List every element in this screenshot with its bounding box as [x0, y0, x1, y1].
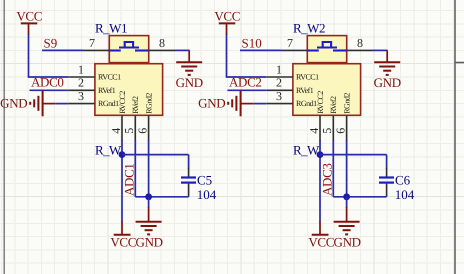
- svg-text:R_W2: R_W2: [293, 21, 325, 36]
- svg-text:VCC: VCC: [308, 235, 334, 250]
- wire pin 5 down: [332, 140, 334, 196]
- svg-text:GND: GND: [136, 235, 163, 250]
- wire junction to C6: [320, 155, 387, 169]
- wire pin 6 down: [148, 140, 150, 196]
- svg-text:2: 2: [276, 76, 282, 90]
- svg-text:RGnd1: RGnd1: [98, 99, 119, 108]
- capacitor C5: [181, 168, 196, 197]
- svg-text:VCC: VCC: [16, 9, 42, 24]
- svg-text:ADC3: ADC3: [320, 163, 335, 196]
- sheet border left edge: [3, 0, 5, 274]
- svg-text:3: 3: [78, 89, 84, 103]
- svg-text:104: 104: [395, 187, 415, 202]
- svg-text:VCC: VCC: [214, 9, 240, 24]
- pushbutton symbol: [110, 42, 149, 51]
- pin 3: [266, 89, 293, 104]
- pin 6: [136, 115, 150, 141]
- pin 1: [266, 62, 293, 77]
- pin 5: [122, 115, 136, 141]
- ground GND (bottom): [136, 207, 163, 249]
- wire S10 to pin 7: [240, 49, 281, 51]
- sheet border right edge: [454, 0, 456, 274]
- svg-text:GND: GND: [198, 96, 225, 111]
- svg-text:S9: S9: [44, 35, 58, 50]
- pin 5: [320, 115, 334, 141]
- pin 6: [334, 115, 348, 141]
- ground GND (pin 8): [374, 50, 401, 89]
- pin 8: [347, 36, 373, 51]
- svg-text:R_W1: R_W1: [95, 21, 127, 36]
- wire pin 5 to capacitor bottom: [135, 196, 188, 198]
- svg-text:2: 2: [78, 76, 84, 90]
- pushbutton section of R_W2: [307, 36, 346, 63]
- junction (pin 6 / GND): [343, 193, 350, 200]
- wire S9 to pin 7: [42, 49, 83, 51]
- potentiometer R_W1 body: [95, 64, 163, 116]
- wire pin 5 down: [134, 140, 136, 196]
- power port VCC (bottom): [308, 222, 334, 250]
- junction (pin 6 / GND): [145, 193, 152, 200]
- svg-text:ADC1: ADC1: [122, 163, 137, 196]
- svg-text:104: 104: [197, 187, 217, 202]
- svg-text:RVCC1: RVCC1: [296, 73, 319, 82]
- svg-text:GND: GND: [176, 75, 203, 90]
- wire pin 4 down to VCC: [121, 140, 123, 222]
- junction (pin 4 / cap branch): [317, 151, 324, 158]
- svg-text:R_W: R_W: [293, 142, 320, 157]
- wire GND to pin 3: [56, 103, 68, 105]
- svg-text:1: 1: [276, 62, 282, 76]
- svg-text:8: 8: [159, 36, 165, 50]
- svg-text:RVCC2: RVCC2: [118, 91, 127, 114]
- svg-text:GND: GND: [374, 75, 401, 90]
- svg-text:1: 1: [78, 62, 84, 76]
- wire VCC to pin 1: [226, 34, 267, 77]
- svg-text:C6: C6: [395, 172, 411, 187]
- svg-text:RVCC1: RVCC1: [98, 73, 121, 82]
- svg-text:4: 4: [307, 128, 321, 134]
- svg-text:ADC0: ADC0: [31, 74, 64, 89]
- svg-text:RGnd2: RGnd2: [145, 93, 154, 114]
- svg-text:5: 5: [320, 128, 334, 134]
- svg-text:C5: C5: [197, 172, 212, 187]
- pushbutton symbol: [308, 42, 347, 51]
- svg-text:RVCC2: RVCC2: [316, 91, 325, 114]
- svg-text:ADC2: ADC2: [229, 74, 262, 89]
- ground GND (pin 3, sideways): [0, 90, 56, 116]
- power port VCC (top, R_W2): [214, 9, 240, 35]
- svg-text:6: 6: [334, 128, 348, 134]
- power port VCC (bottom): [110, 222, 136, 250]
- wire GND to pin 3: [254, 103, 267, 105]
- ground GND (pin 3, sideways): [198, 90, 254, 116]
- svg-text:VCC: VCC: [110, 235, 136, 250]
- pin 7: [83, 36, 109, 51]
- wire pin 6 down: [346, 140, 348, 196]
- wire VCC to pin 1: [28, 34, 68, 77]
- svg-text:RVef2: RVef2: [131, 96, 140, 114]
- svg-text:3: 3: [276, 89, 282, 103]
- svg-text:RVef1: RVef1: [296, 86, 314, 95]
- wire ADC0 to pin 2: [30, 89, 69, 91]
- pin 4: [109, 115, 123, 141]
- potentiometer R_W2 body: [293, 64, 361, 116]
- svg-text:7: 7: [287, 36, 293, 50]
- junction (pin 4 / cap branch): [119, 151, 126, 158]
- svg-text:RVef1: RVef1: [98, 86, 116, 95]
- ground GND (bottom): [334, 207, 361, 249]
- wire junction to GND: [346, 197, 348, 208]
- power port VCC (top, R_W1): [16, 9, 42, 35]
- pushbutton section of R_W1: [109, 36, 148, 63]
- svg-text:GND: GND: [334, 235, 361, 250]
- svg-text:7: 7: [89, 36, 95, 50]
- pin 4: [307, 115, 321, 141]
- svg-text:S10: S10: [242, 35, 262, 50]
- svg-text:GND: GND: [0, 96, 27, 111]
- svg-text:R_W: R_W: [95, 142, 122, 157]
- wire ADC2 to pin 2: [228, 89, 267, 91]
- pin 3: [68, 89, 95, 104]
- svg-text:6: 6: [136, 128, 150, 134]
- svg-text:4: 4: [109, 128, 123, 134]
- pin 2: [68, 76, 95, 91]
- pin 8: [149, 36, 175, 51]
- sheet border zone tick: [455, 62, 464, 64]
- wire junction to C5: [122, 155, 189, 169]
- wire junction to GND: [148, 197, 150, 208]
- wire pin 5 to capacitor bottom: [333, 196, 386, 198]
- pin 1: [68, 62, 95, 77]
- svg-text:8: 8: [357, 36, 363, 50]
- svg-text:RVef2: RVef2: [329, 96, 338, 114]
- wire pin 8 to GND: [373, 49, 388, 51]
- ground GND (pin 8): [176, 50, 203, 89]
- svg-text:5: 5: [122, 128, 136, 134]
- wire pin 4 down to VCC: [319, 140, 321, 222]
- svg-text:RGnd2: RGnd2: [343, 93, 352, 114]
- capacitor C6: [379, 168, 394, 197]
- pin 2: [266, 76, 293, 91]
- pin 7: [281, 36, 307, 51]
- svg-text:RGnd1: RGnd1: [296, 99, 317, 108]
- wire pin 8 to GND: [175, 49, 190, 51]
